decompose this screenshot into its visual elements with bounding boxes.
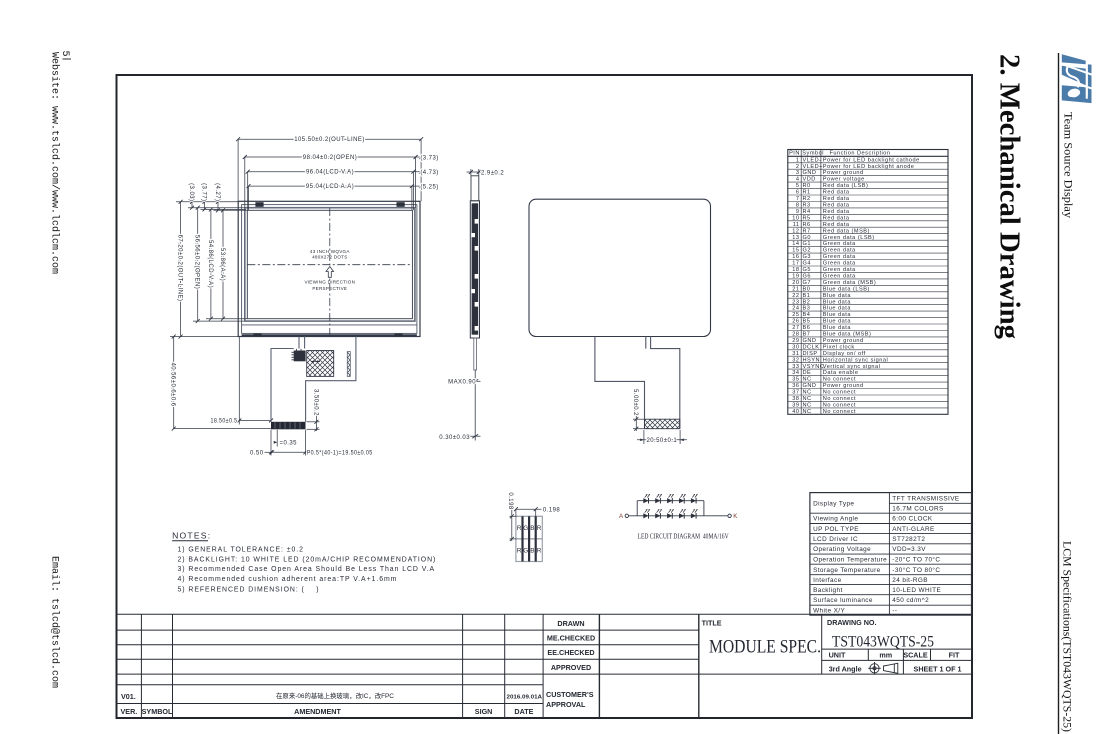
svg-text:11: 11 (793, 222, 800, 228)
svg-text:20.50±0.1: 20.50±0.1 (646, 438, 677, 444)
svg-text:B2: B2 (803, 299, 811, 305)
svg-text:No connect: No connect (823, 377, 856, 383)
svg-text:40.56±0.6±0.6: 40.56±0.6±0.6 (170, 362, 176, 406)
svg-text:33: 33 (792, 364, 799, 370)
svg-text:No connect: No connect (823, 409, 856, 415)
svg-text:SHEET 1 OF 1: SHEET 1 OF 1 (914, 665, 962, 674)
svg-text:18: 18 (792, 267, 799, 273)
svg-text:Power ground: Power ground (823, 383, 864, 389)
svg-text:--: -- (892, 608, 897, 615)
svg-text:18.50±0.5: 18.50±0.5 (211, 419, 238, 425)
svg-text:14: 14 (792, 241, 799, 247)
svg-text:R: R (517, 548, 522, 555)
svg-text:Blue data: Blue data (823, 325, 852, 331)
svg-text:TST043WQTS-25: TST043WQTS-25 (832, 634, 934, 651)
svg-text:(3.73): (3.73) (420, 155, 438, 161)
svg-text:3.50±0.2: 3.50±0.2 (312, 389, 318, 416)
svg-text:TITLE: TITLE (702, 618, 722, 627)
svg-text:NC: NC (803, 402, 812, 408)
svg-text:17: 17 (792, 261, 799, 267)
svg-text:P0.5*(40-1)=19.50±0.05: P0.5*(40-1)=19.50±0.05 (307, 451, 373, 457)
svg-text:9: 9 (796, 209, 800, 215)
svg-text:31: 31 (792, 351, 799, 357)
svg-text:7: 7 (796, 196, 800, 202)
svg-text:VIEWING DIRECTION: VIEWING DIRECTION (304, 280, 355, 285)
svg-text:Storage Temperature: Storage Temperature (813, 567, 881, 574)
svg-text:6: 6 (796, 190, 800, 196)
svg-text:FIT: FIT (949, 651, 960, 660)
svg-text:B: B (530, 548, 534, 555)
svg-text:24: 24 (792, 306, 799, 312)
svg-text:13: 13 (792, 235, 799, 241)
svg-text:G6: G6 (803, 274, 811, 280)
svg-text:G1: G1 (803, 241, 811, 247)
svg-text:37: 37 (792, 390, 799, 396)
svg-text:R6: R6 (803, 222, 811, 228)
svg-text:28: 28 (792, 332, 799, 338)
svg-text:B4: B4 (803, 312, 811, 318)
svg-text:APPROVAL: APPROVAL (546, 700, 586, 709)
svg-text:SCALE: SCALE (903, 651, 928, 660)
svg-text:GND: GND (803, 383, 817, 389)
svg-text:R2: R2 (803, 196, 811, 202)
svg-text:VLED-: VLED- (803, 157, 822, 163)
svg-text:15: 15 (792, 248, 799, 254)
svg-text:VER.: VER. (121, 707, 138, 716)
svg-text:G: G (523, 548, 528, 555)
svg-text:2) BACKLIGHT: 10 WHITE LED (20: 2) BACKLIGHT: 10 WHITE LED (20mA/CHIP RE… (178, 557, 437, 564)
svg-text:105.50±0.2(OUT LINE): 105.50±0.2(OUT LINE) (294, 137, 365, 143)
svg-text:Viewing Angle: Viewing Angle (813, 516, 858, 523)
svg-text:Power voltage: Power voltage (823, 177, 865, 183)
svg-text:AMENDMENT: AMENDMENT (294, 707, 341, 716)
svg-text:Operating Voltage: Operating Voltage (813, 546, 871, 553)
svg-text:12: 12 (792, 228, 799, 234)
svg-text:TFT TRANSMISSIVE: TFT TRANSMISSIVE (892, 495, 959, 502)
svg-text:24 bit-RGB: 24 bit-RGB (892, 577, 928, 584)
svg-text:DISP: DISP (803, 351, 818, 357)
svg-text:38: 38 (792, 396, 799, 402)
svg-text:Power ground: Power ground (823, 338, 864, 344)
svg-text:8: 8 (796, 203, 800, 209)
svg-text:HSYN: HSYN (803, 357, 821, 363)
svg-text:Red data: Red data (823, 209, 850, 215)
svg-text:Interface: Interface (813, 577, 842, 584)
svg-text:40: 40 (792, 409, 799, 415)
svg-text:1) GENERAL TOLERANCE: ±0.2: 1) GENERAL TOLERANCE: ±0.2 (178, 547, 304, 554)
svg-text:EE.CHECKED: EE.CHECKED (547, 648, 594, 657)
svg-text:Green data: Green data (823, 274, 856, 280)
svg-text:Red data: Red data (823, 203, 850, 209)
svg-text:450 cd/m^2: 450 cd/m^2 (892, 597, 929, 604)
svg-text:DATE: DATE (514, 707, 533, 716)
svg-text:NC: NC (803, 396, 812, 402)
svg-text:-20°C TO 70°C: -20°C TO 70°C (892, 556, 940, 564)
svg-text:Red data: Red data (823, 215, 850, 221)
svg-text:23: 23 (792, 299, 799, 305)
svg-text:Green data (LSB): Green data (LSB) (823, 235, 875, 241)
svg-text:0.198: 0.198 (507, 492, 513, 509)
svg-text:APPROVED: APPROVED (551, 663, 591, 672)
svg-text:R7: R7 (803, 228, 811, 234)
svg-text:21: 21 (792, 286, 799, 292)
svg-text:Red data: Red data (823, 222, 850, 228)
svg-text:10: 10 (792, 215, 799, 221)
svg-text:DE: DE (803, 370, 812, 376)
svg-text:在原来-06的基础上换玻璃，改IC，改FPC: 在原来-06的基础上换玻璃，改IC，改FPC (276, 691, 394, 700)
svg-text:PIN: PIN (789, 150, 800, 156)
svg-text:VDD=3.3V: VDD=3.3V (892, 546, 926, 553)
svg-text:Display on/ off: Display on/ off (823, 351, 866, 357)
svg-text:27: 27 (792, 325, 799, 331)
svg-text:36: 36 (792, 383, 799, 389)
svg-text:NOTES:: NOTES: (172, 531, 211, 541)
svg-text:LCD Driver IC: LCD Driver IC (813, 536, 858, 543)
svg-text:29: 29 (792, 338, 799, 344)
svg-text:Operation Temperature: Operation Temperature (813, 557, 887, 564)
svg-text:Pixel clock: Pixel clock (823, 344, 855, 350)
svg-text:No connect: No connect (823, 402, 856, 408)
svg-text:4: 4 (796, 177, 800, 183)
svg-text:R: R (537, 525, 542, 532)
svg-text:R0: R0 (803, 183, 811, 189)
svg-text:VLED+: VLED+ (803, 164, 823, 170)
svg-text:R3: R3 (803, 203, 811, 209)
svg-text:Website: www.tslcd.com/www.lc: Website: www.tslcd.com/www.lcdlcm.com (49, 52, 61, 274)
svg-text:NC: NC (803, 377, 812, 383)
svg-text:ANTI-GLARE: ANTI-GLARE (892, 526, 934, 533)
svg-text:3) Recommended Case Open Area: 3) Recommended Case Open Area Should Be … (178, 566, 436, 573)
svg-text:(3.03): (3.03) (188, 183, 194, 201)
svg-text:10-LED WHITE: 10-LED WHITE (892, 587, 941, 594)
svg-text:Blue data: Blue data (823, 306, 852, 312)
svg-text:2.9±0.2: 2.9±0.2 (481, 171, 504, 177)
svg-text:Surface luminance: Surface luminance (813, 597, 873, 604)
svg-text:Horizontal sync signal: Horizontal sync signal (823, 357, 888, 363)
svg-text:6:00 CLOCK: 6:00 CLOCK (892, 516, 933, 523)
svg-text:Function Description: Function Description (830, 150, 891, 156)
svg-text:ST7282T2: ST7282T2 (892, 536, 925, 543)
svg-text:95.04(LCD A.A): 95.04(LCD A.A) (306, 184, 354, 190)
svg-text:0.50: 0.50 (250, 451, 264, 457)
svg-text:5.00±0.2: 5.00±0.2 (632, 389, 638, 416)
svg-text:=0.35: =0.35 (280, 441, 298, 447)
svg-text:Green data: Green data (823, 254, 856, 260)
svg-text:Blue data (LSB): Blue data (LSB) (823, 286, 870, 292)
svg-text:43 INCH WQVGA: 43 INCH WQVGA (310, 249, 350, 254)
svg-text:53.86(A.A): 53.86(A.A) (219, 248, 225, 281)
svg-text:Green data: Green data (823, 248, 856, 254)
svg-text:G5: G5 (803, 267, 811, 273)
svg-text:19: 19 (792, 274, 799, 280)
svg-text:Backlight: Backlight (813, 587, 843, 594)
svg-text:0.30±0.03: 0.30±0.03 (439, 435, 470, 441)
svg-text:67.20±0.2(OUT LINE): 67.20±0.2(OUT LINE) (177, 235, 183, 302)
svg-text:White X/Y: White X/Y (813, 608, 845, 615)
svg-text:A: A (619, 513, 624, 520)
svg-text:480X272 DOTS: 480X272 DOTS (312, 255, 347, 260)
svg-text:(4.73): (4.73) (420, 170, 438, 176)
svg-text:2. Mechanical Drawing: 2. Mechanical Drawing (994, 54, 1025, 339)
svg-text:G3: G3 (803, 254, 811, 260)
svg-text:LED CIRCUIT DIAGRAM 40MA/16V: LED CIRCUIT DIAGRAM 40MA/16V (638, 532, 730, 540)
svg-text:G: G (523, 525, 528, 532)
svg-text:VDD: VDD (803, 177, 816, 183)
svg-text:G4: G4 (803, 261, 811, 267)
svg-text:NC: NC (803, 409, 812, 415)
svg-text:1: 1 (796, 157, 800, 163)
svg-text:B3: B3 (803, 306, 811, 312)
svg-text:ME.CHECKED: ME.CHECKED (547, 634, 595, 643)
svg-text:MAX0.90: MAX0.90 (448, 380, 476, 386)
svg-text:54.86(LCD V.A): 54.86(LCD V.A) (207, 240, 213, 288)
svg-text:Blue data: Blue data (823, 319, 852, 325)
svg-text:34: 34 (792, 370, 799, 376)
svg-text:Blue data: Blue data (823, 312, 852, 318)
svg-text:K: K (733, 513, 738, 520)
svg-text:Power for LED backlight anode: Power for LED backlight anode (823, 164, 915, 170)
svg-text:Green data: Green data (823, 241, 856, 247)
svg-text:26: 26 (792, 319, 799, 325)
svg-text:(3.77): (3.77) (200, 183, 206, 201)
svg-text:No connect: No connect (823, 396, 856, 402)
svg-text:G2: G2 (803, 248, 811, 254)
svg-text:(4.27): (4.27) (214, 183, 220, 201)
svg-text:R5: R5 (803, 215, 811, 221)
svg-text:UP POL TYPE: UP POL TYPE (813, 526, 859, 533)
svg-text:Red data (LSB): Red data (LSB) (823, 183, 869, 189)
svg-text:B7: B7 (803, 332, 811, 338)
svg-text:Vertical sync signal: Vertical sync signal (823, 364, 881, 370)
svg-text:Blue data (MSB): Blue data (MSB) (823, 332, 872, 338)
svg-text:B: B (530, 525, 534, 532)
svg-text:PERSPECTIVE: PERSPECTIVE (312, 286, 347, 291)
svg-text:4) Recommended cushion adheren: 4) Recommended cushion adherent area:TP … (178, 576, 398, 583)
svg-text:5) REFERENCED DIMENSION: (: 5) REFERENCED DIMENSION: ( ) (178, 587, 320, 594)
svg-text:32: 32 (792, 357, 799, 363)
svg-text:Symbol: Symbol (802, 150, 824, 156)
svg-text:56.56±0.2(OPEN): 56.56±0.2(OPEN) (194, 235, 200, 289)
svg-text:Red data: Red data (823, 196, 850, 202)
svg-text:Power for LED backlight cathod: Power for LED backlight cathode (823, 157, 920, 163)
svg-text:G7: G7 (803, 280, 811, 286)
svg-text:96.04(LCD V.A): 96.04(LCD V.A) (306, 170, 354, 176)
svg-text:Email: tslcd@tslcd.com: Email: tslcd@tslcd.com (49, 556, 61, 688)
svg-text:B1: B1 (803, 293, 811, 299)
svg-text:30: 30 (792, 344, 799, 350)
svg-text:CUSTOMER'S: CUSTOMER'S (546, 690, 594, 699)
svg-text:2016.09.01A: 2016.09.01A (507, 695, 543, 701)
svg-text:Green data: Green data (823, 267, 856, 273)
svg-text:V01.: V01. (121, 692, 136, 701)
svg-text:UNIT: UNIT (829, 651, 846, 660)
svg-text:DRAWN: DRAWN (557, 619, 584, 628)
svg-text:Team Source Display: Team Source Display (1062, 112, 1074, 218)
svg-text:DCLK: DCLK (803, 344, 820, 350)
svg-text:DRAWING NO.: DRAWING NO. (827, 618, 877, 627)
svg-text:VSYNC: VSYNC (803, 364, 825, 370)
svg-text:MODULE SPEC.: MODULE SPEC. (709, 636, 821, 657)
svg-text:Power ground: Power ground (823, 170, 864, 176)
svg-text:20: 20 (792, 280, 799, 286)
svg-text:25: 25 (792, 312, 799, 318)
svg-text:Green data (MSB): Green data (MSB) (823, 280, 876, 286)
svg-text:2: 2 (796, 164, 800, 170)
svg-text:16: 16 (792, 254, 799, 260)
svg-text:R4: R4 (803, 209, 811, 215)
svg-text:5: 5 (796, 183, 800, 189)
svg-text:Data enable: Data enable (823, 370, 859, 376)
svg-text:GND: GND (803, 170, 817, 176)
svg-text:NC: NC (803, 390, 812, 396)
svg-text:(5.25): (5.25) (420, 184, 438, 190)
svg-text:mm: mm (879, 651, 892, 660)
svg-text:SYMBOL: SYMBOL (142, 707, 173, 716)
svg-text:16.7M COLORS: 16.7M COLORS (892, 506, 943, 513)
svg-text:R: R (517, 525, 522, 532)
svg-text:Green data: Green data (823, 261, 856, 267)
svg-text:SIGN: SIGN (475, 707, 493, 716)
svg-text:R: R (537, 548, 542, 555)
svg-text:LCM Specifications(TST043WQTS-: LCM Specifications(TST043WQTS-25) (1061, 541, 1073, 732)
svg-text:R1: R1 (803, 190, 811, 196)
svg-text:Red data: Red data (823, 190, 850, 196)
svg-text:B6: B6 (803, 325, 811, 331)
svg-text:Blue data: Blue data (823, 293, 852, 299)
svg-text:3: 3 (796, 170, 800, 176)
svg-text:3rd Angle: 3rd Angle (829, 665, 862, 674)
svg-text:G0: G0 (803, 235, 811, 241)
svg-text:22: 22 (792, 293, 799, 299)
svg-text:39: 39 (792, 402, 799, 408)
svg-text:B0: B0 (803, 286, 811, 292)
svg-text:No connect: No connect (823, 390, 856, 396)
svg-text:5: 5 (59, 51, 70, 57)
svg-text:B5: B5 (803, 319, 811, 325)
svg-text:Blue data: Blue data (823, 299, 852, 305)
svg-text:GND: GND (803, 338, 817, 344)
svg-text:Display Type: Display Type (813, 501, 854, 508)
svg-text:0.198: 0.198 (543, 507, 560, 513)
svg-text:Red data (MSB): Red data (MSB) (823, 228, 870, 234)
svg-text:-30°C TO 80°C: -30°C TO 80°C (892, 566, 940, 574)
svg-text:98.04±0.2(OPEN): 98.04±0.2(OPEN) (303, 155, 357, 161)
svg-text:35: 35 (792, 377, 799, 383)
